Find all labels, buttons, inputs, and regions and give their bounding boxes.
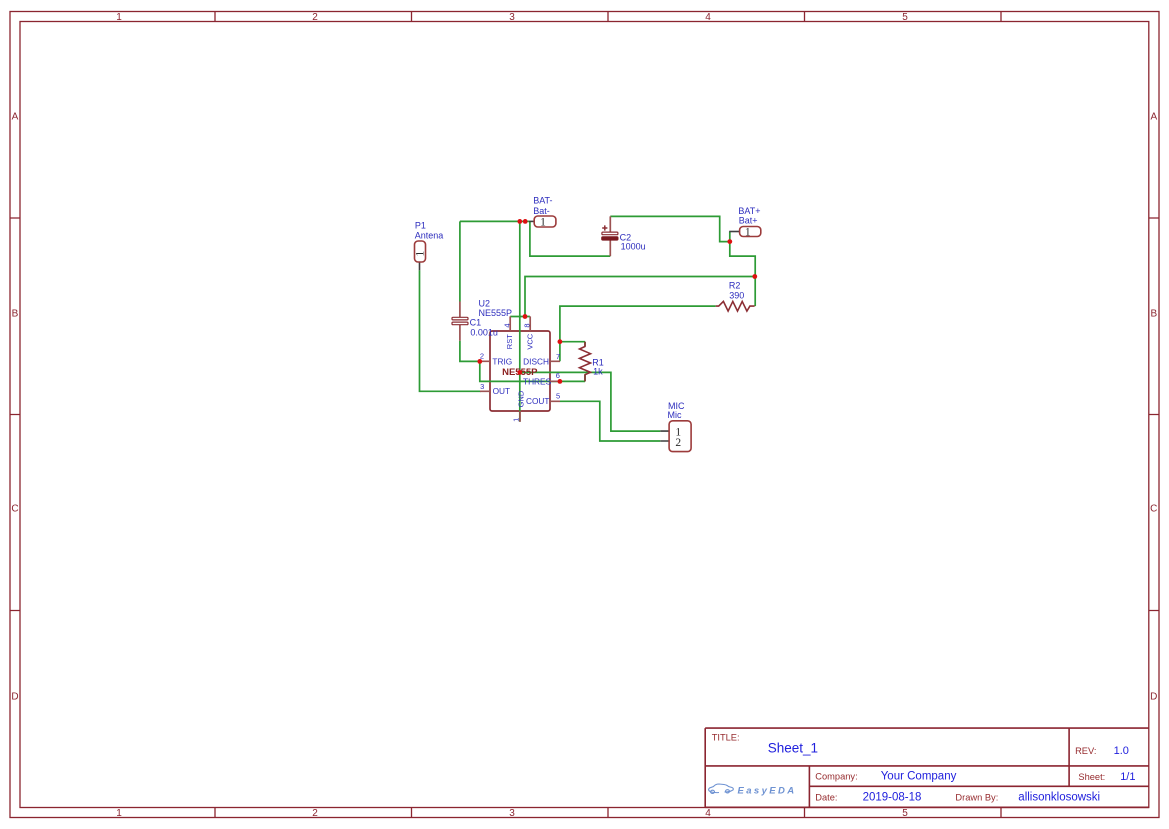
svg-text:Bat+: Bat+ <box>739 216 758 226</box>
svg-text:5: 5 <box>902 12 908 23</box>
svg-text:390: 390 <box>729 290 744 300</box>
svg-text:8: 8 <box>523 323 532 327</box>
svg-text:7: 7 <box>556 352 560 361</box>
svg-text:5: 5 <box>556 391 560 400</box>
svg-text:A: A <box>1150 112 1157 123</box>
svg-text:DISCH: DISCH <box>523 357 549 367</box>
svg-text:A: A <box>12 112 19 123</box>
svg-text:RST: RST <box>505 334 514 349</box>
svg-text:BAT-: BAT- <box>533 195 552 205</box>
svg-text:Company:: Company: <box>815 772 857 782</box>
svg-text:1/1: 1/1 <box>1120 771 1135 783</box>
svg-text:3: 3 <box>509 12 515 23</box>
svg-text:TITLE:: TITLE: <box>712 732 740 742</box>
svg-text:P1: P1 <box>415 220 426 230</box>
svg-text:Bat-: Bat- <box>533 206 550 216</box>
svg-text:1: 1 <box>415 251 427 257</box>
svg-text:4: 4 <box>503 323 512 327</box>
svg-text:Sheet:: Sheet: <box>1078 772 1105 782</box>
svg-text:1000u: 1000u <box>621 242 646 252</box>
svg-text:Drawn By:: Drawn By: <box>955 793 998 803</box>
svg-text:allisonklosowski: allisonklosowski <box>1018 792 1100 804</box>
svg-text:2: 2 <box>312 12 318 23</box>
svg-text:1: 1 <box>745 226 751 238</box>
svg-text:BAT+: BAT+ <box>738 206 760 216</box>
svg-text:Date:: Date: <box>815 793 837 803</box>
svg-text:Mic: Mic <box>668 410 682 420</box>
svg-text:3: 3 <box>480 382 484 391</box>
svg-text:0.001u: 0.001u <box>470 328 498 338</box>
svg-text:Antena: Antena <box>415 230 444 240</box>
svg-text:1: 1 <box>512 418 521 422</box>
svg-text:B: B <box>1150 309 1157 320</box>
svg-text:COUT: COUT <box>526 396 550 406</box>
svg-text:VCC: VCC <box>526 333 535 349</box>
svg-text:1: 1 <box>116 808 122 819</box>
svg-text:C: C <box>11 504 18 515</box>
svg-text:TRIG: TRIG <box>492 357 512 367</box>
svg-text:U2: U2 <box>479 299 491 309</box>
svg-text:OUT: OUT <box>493 386 511 396</box>
svg-text:3: 3 <box>509 808 515 819</box>
svg-text:1k: 1k <box>593 367 603 377</box>
svg-text:D: D <box>1150 692 1157 703</box>
svg-text:4: 4 <box>705 12 711 23</box>
svg-text:4: 4 <box>705 808 711 819</box>
svg-text:6: 6 <box>556 371 560 380</box>
svg-text:Your Company: Your Company <box>881 771 957 783</box>
svg-text:2019-08-18: 2019-08-18 <box>863 792 922 804</box>
svg-text:REV:: REV: <box>1075 746 1096 756</box>
svg-text:B: B <box>12 309 19 320</box>
svg-text:C1: C1 <box>470 317 482 327</box>
svg-text:GND: GND <box>517 390 526 407</box>
svg-text:2: 2 <box>675 437 681 449</box>
svg-text:1: 1 <box>540 217 546 229</box>
svg-text:2: 2 <box>312 808 318 819</box>
svg-text:2: 2 <box>480 351 484 360</box>
svg-text:C: C <box>1150 504 1157 515</box>
svg-text:EasyEDA: EasyEDA <box>738 785 797 796</box>
svg-text:Sheet_1: Sheet_1 <box>768 741 818 756</box>
svg-text:R2: R2 <box>729 281 741 291</box>
svg-text:5: 5 <box>902 808 908 819</box>
svg-text:NE555P: NE555P <box>479 308 513 318</box>
svg-text:1: 1 <box>116 12 122 23</box>
svg-text:D: D <box>11 692 18 703</box>
svg-text:1.0: 1.0 <box>1114 745 1129 757</box>
